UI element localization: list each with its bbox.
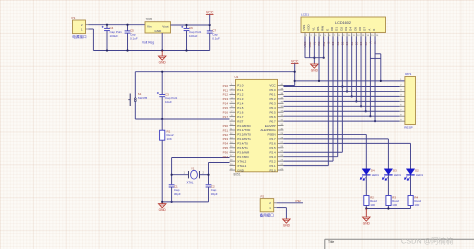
svg-text:P0.3: P0.3 (270, 102, 277, 106)
svg-text:GND: GND (283, 223, 291, 227)
svg-text:14: 14 (367, 35, 370, 37)
wire lcd pin5 RW down (323, 37, 325, 58)
svg-text:P2.3: P2.3 (270, 155, 277, 159)
svg-text:9: 9 (343, 35, 345, 37)
svg-text:GND: GND (154, 29, 162, 33)
svg-text:D1: D1 (335, 27, 339, 31)
wire P2 pin1 to ground (277, 207, 287, 209)
svg-text:VCC: VCC (206, 11, 214, 15)
wire crystal left leg (171, 158, 173, 185)
wire regulator Vout to VCC node (171, 24, 210, 26)
svg-text:Volt Reg: Volt Reg (142, 41, 154, 45)
svg-text:LED1: LED1 (394, 173, 402, 177)
svg-text:100: 100 (370, 203, 375, 207)
wire backlight anode jog (370, 57, 380, 59)
svg-text:100: 100 (414, 203, 419, 207)
svg-text:GND: GND (159, 60, 167, 64)
wire MCU VCC pin to stem (284, 85, 295, 87)
svg-text:P2.6: P2.6 (270, 142, 277, 146)
svg-text:P34: P34 (223, 142, 229, 146)
svg-text:P0.5: P0.5 (270, 110, 277, 114)
svg-text:RST: RST (237, 119, 243, 123)
wire bottom power rail (93, 50, 209, 52)
svg-text:2: 2 (203, 171, 205, 174)
wire backlight feed (380, 54, 382, 81)
svg-text:GND: GND (311, 68, 319, 72)
wire lcd pin1 VSS down (304, 37, 306, 58)
svg-text:1: 1 (306, 35, 308, 37)
svg-text:Y1: Y1 (191, 166, 195, 170)
led D3 LED1 (384, 169, 392, 175)
capacitor C2 (206, 184, 212, 186)
svg-text:5: 5 (324, 35, 326, 37)
wire lcd pin7 riser to P2.1 row (332, 37, 334, 162)
ground crystal (161, 203, 163, 204)
svg-text:P0.2: P0.2 (270, 97, 277, 101)
svg-text:10uF: 10uF (165, 100, 172, 104)
svg-text:D4: D4 (349, 27, 353, 31)
wire lcd pin4 RS down to VCC line (318, 37, 320, 81)
wire P2.3 row to lcd pin9 riser (284, 151, 343, 153)
svg-text:P1.4: P1.4 (237, 102, 244, 106)
wire lcd pin6 riser to P2.0 row (327, 37, 329, 166)
svg-text:P1.1: P1.1 (237, 88, 244, 92)
svg-text:P14: P14 (223, 102, 229, 106)
svg-text:VSS: VSS (302, 25, 306, 31)
svg-text:7805: 7805 (146, 17, 153, 21)
svg-text:CSDN @阿楠楠: CSDN @阿楠楠 (401, 237, 453, 246)
svg-text:GND: GND (363, 221, 371, 225)
wire P2.4 row to LED3 (284, 142, 411, 144)
wire P2.2 row to lcd pin8 riser (284, 156, 338, 158)
svg-text:0.1uF: 0.1uF (212, 36, 220, 40)
svg-text:P17: P17 (223, 115, 229, 119)
svg-text:8051: 8051 (234, 173, 241, 177)
svg-text:0.1uF: 0.1uF (130, 36, 138, 40)
svg-text:30pF: 30pF (211, 192, 218, 196)
svg-text:备用接口: 备用接口 (260, 213, 274, 218)
svg-text:PSEN: PSEN (268, 133, 276, 137)
wire P2.1 row to lcd pin7 riser (284, 160, 334, 162)
wire lcd pin8 riser to P2.2 row (337, 37, 339, 157)
svg-text:XTAL1: XTAL1 (237, 164, 246, 168)
svg-text:GND: GND (159, 208, 167, 212)
svg-text:P3.3/INT1: P3.3/INT1 (237, 137, 251, 141)
svg-text:RW: RW (321, 26, 325, 31)
svg-text:8: 8 (338, 35, 340, 37)
svg-text:1: 1 (184, 171, 186, 174)
svg-text:P1.7: P1.7 (237, 115, 244, 119)
resistor R3 (386, 196, 391, 206)
svg-text:100uF: 100uF (189, 34, 198, 38)
svg-text:10K: 10K (167, 137, 172, 141)
svg-text:D2: D2 (339, 27, 343, 31)
wire P1 pin2 to regulator Vin (89, 24, 146, 26)
svg-text:P2.2: P2.2 (270, 159, 277, 163)
wire lcd data pin16 vertical (374, 37, 376, 122)
resistor pack RP1 (405, 77, 416, 125)
regulator U2 7805 (145, 22, 171, 33)
svg-text:11: 11 (353, 35, 356, 37)
svg-text:P2.7: P2.7 (270, 137, 277, 141)
svg-text:P16: P16 (223, 111, 229, 115)
svg-text:VL: VL (311, 27, 315, 31)
svg-text:D3: D3 (344, 27, 348, 31)
resistor R4 (408, 196, 413, 206)
ground leds (365, 209, 367, 217)
svg-text:Vout: Vout (162, 24, 168, 28)
svg-text:K: K (372, 29, 376, 31)
svg-text:ALE/PROG: ALE/PROG (260, 128, 276, 132)
svg-text:3: 3 (315, 35, 317, 37)
svg-text:E: E (325, 29, 329, 31)
wire gnd cluster (305, 57, 324, 59)
led D4 LED1 (362, 169, 370, 175)
svg-text:Vin: Vin (147, 24, 152, 28)
resistor R1 (161, 119, 163, 130)
wire XTAL1 rail (209, 162, 230, 164)
svg-text:P0.1: P0.1 (270, 93, 277, 97)
svg-text:100uF: 100uF (110, 34, 119, 38)
wire led ground rail (365, 206, 367, 209)
svg-text:VCC: VCC (269, 84, 276, 88)
svg-text:LCD1: LCD1 (301, 13, 309, 17)
svg-text:P35: P35 (223, 146, 229, 150)
wire regulator GND down (161, 33, 163, 51)
wire S1 bottom to RST (134, 105, 136, 119)
svg-text:LED1: LED1 (416, 173, 424, 177)
svg-text:D5: D5 (353, 27, 357, 31)
wire VCC feed line to LCD and RP1 (295, 80, 405, 82)
wire lcd data pin12 vertical (355, 37, 357, 102)
svg-text:VCC: VCC (291, 60, 299, 64)
capacitor C4 (106, 25, 108, 29)
svg-text:XTAL: XTAL (187, 181, 194, 185)
svg-text:6: 6 (329, 35, 331, 37)
wire lcd pin2 VDD down (309, 37, 311, 58)
svg-text:VDD: VDD (307, 24, 311, 31)
wire P2 pin2 to P32 net (277, 202, 303, 204)
wire P2.0 row to lcd pin6 riser (284, 165, 329, 167)
svg-text:P37: P37 (223, 155, 229, 159)
capacitor C6 (186, 25, 188, 28)
capacitor C1 (169, 184, 175, 186)
wire backlight cathode jog (375, 53, 381, 55)
wire lcd data pin13 vertical (360, 37, 362, 107)
svg-text:P1.6: P1.6 (237, 110, 244, 114)
svg-text:P3.5/T1: P3.5/T1 (237, 146, 248, 150)
svg-text:P0.7: P0.7 (270, 119, 277, 123)
svg-text:P3.4/T0: P3.4/T0 (237, 142, 248, 146)
svg-text:P1: P1 (72, 16, 76, 20)
svg-text:P3.0/RXD: P3.0/RXD (237, 124, 251, 128)
svg-text:P1.2: P1.2 (237, 93, 244, 97)
wire crystal ground rail (162, 201, 208, 203)
svg-text:30pF: 30pF (174, 192, 181, 196)
svg-text:P32: P32 (223, 133, 229, 137)
svg-text:LCD1602: LCD1602 (335, 21, 351, 25)
svg-text:P30: P30 (223, 124, 229, 128)
wire P2.5 row to LED2 (284, 138, 389, 140)
svg-text:P0.0: P0.0 (270, 88, 277, 92)
ground lcd (313, 63, 315, 64)
capacitor C5 (127, 25, 129, 31)
svg-text:U1: U1 (235, 75, 239, 79)
svg-text:P0.4: P0.4 (270, 106, 277, 110)
svg-text:P1.5: P1.5 (237, 106, 244, 110)
svg-text:P11: P11 (223, 88, 228, 92)
svg-text:Title: Title (328, 240, 334, 244)
svg-text:P1.3: P1.3 (237, 97, 244, 101)
wire lcd data pin14 vertical (365, 37, 367, 112)
wire led D3 to resistor (387, 175, 389, 196)
connector P1 (73, 20, 86, 34)
svg-text:LED1: LED1 (372, 173, 380, 177)
switch S1 SW-PB (134, 94, 136, 98)
svg-text:10: 10 (348, 35, 351, 37)
svg-text:D7: D7 (363, 27, 367, 31)
svg-text:15: 15 (371, 35, 374, 37)
svg-text:A: A (367, 29, 371, 31)
wire lcd data pin11 vertical (351, 37, 353, 97)
capacitor C7 (209, 25, 211, 31)
capacitor C3 (161, 72, 163, 95)
svg-text:P2.5: P2.5 (270, 146, 277, 150)
led D2 LED1 (406, 169, 414, 175)
svg-text:P15: P15 (223, 106, 229, 110)
svg-text:D0: D0 (330, 27, 334, 31)
wire P1 pin1 down (89, 28, 94, 30)
svg-text:2: 2 (310, 35, 312, 37)
wire VCC rail to reset and MCU (135, 71, 294, 73)
svg-text:P2: P2 (261, 194, 265, 198)
ground regulator (161, 51, 163, 56)
lcd module LCD1 LCD1602 (301, 17, 386, 33)
wires P0 bus rows MCU to RP1 (284, 86, 400, 88)
lcd pin stubs and numbers (304, 33, 306, 37)
wire lcd data pin9 vertical (341, 37, 343, 153)
mcu U1 8051 (236, 79, 278, 171)
title block (325, 238, 474, 240)
svg-text:P33: P33 (223, 137, 229, 141)
svg-text:P3.7/RD: P3.7/RD (237, 155, 249, 159)
svg-text:XTAL2: XTAL2 (237, 159, 246, 163)
svg-text:P12: P12 (223, 93, 229, 97)
svg-text:GND: GND (237, 168, 245, 172)
svg-text:4: 4 (320, 35, 322, 37)
svg-text:P3.6/WR: P3.6/WR (237, 150, 250, 154)
svg-text:D6: D6 (358, 27, 362, 31)
svg-text:RP1: RP1 (405, 72, 411, 76)
wire lcd pin3 VL down to ground (313, 37, 315, 64)
crystal Y1 (172, 174, 189, 176)
wire led D2 to resistor (410, 175, 412, 196)
svg-text:P2.4: P2.4 (270, 150, 277, 154)
svg-text:RESP: RESP (404, 125, 412, 129)
svg-text:P3.1/TXD: P3.1/TXD (237, 128, 251, 132)
svg-text:P13: P13 (223, 97, 229, 101)
svg-text:电源接口: 电源接口 (72, 34, 87, 39)
svg-text:EA/VPP: EA/VPP (265, 124, 276, 128)
wire XTAL2 rail (172, 157, 230, 159)
wire led D4 to resistor (365, 175, 367, 196)
svg-text:13: 13 (362, 35, 365, 37)
wire R1 bottom to ground rail (161, 140, 163, 202)
ground P2 (285, 218, 287, 219)
svg-text:SW-PB: SW-PB (138, 96, 147, 100)
wire lcd data pin10 vertical (346, 37, 348, 92)
svg-text:100: 100 (392, 203, 397, 207)
wire S1 top (134, 72, 136, 94)
svg-text:P31: P31 (223, 128, 229, 132)
connector P2 (260, 199, 274, 212)
svg-text:P32: P32 (296, 199, 302, 203)
svg-text:P10: P10 (223, 84, 229, 88)
wire crystal right leg (208, 163, 210, 185)
svg-text:P3.2/INT0: P3.2/INT0 (237, 133, 251, 137)
resistor R2 (364, 196, 369, 206)
svg-text:12: 12 (357, 35, 360, 37)
svg-text:P36: P36 (223, 151, 229, 155)
wire P2.6 row to LED1 (284, 133, 367, 135)
svg-text:P1.0: P1.0 (237, 84, 244, 88)
svg-text:P0.6: P0.6 (270, 115, 277, 119)
wire lcd data pin15 vertical (369, 37, 371, 117)
svg-text:P2.1: P2.1 (270, 164, 277, 168)
svg-text:16: 16 (376, 35, 379, 37)
svg-text:P2.0: P2.0 (270, 168, 277, 172)
svg-text:7: 7 (334, 35, 336, 37)
svg-text:RS: RS (316, 27, 320, 31)
